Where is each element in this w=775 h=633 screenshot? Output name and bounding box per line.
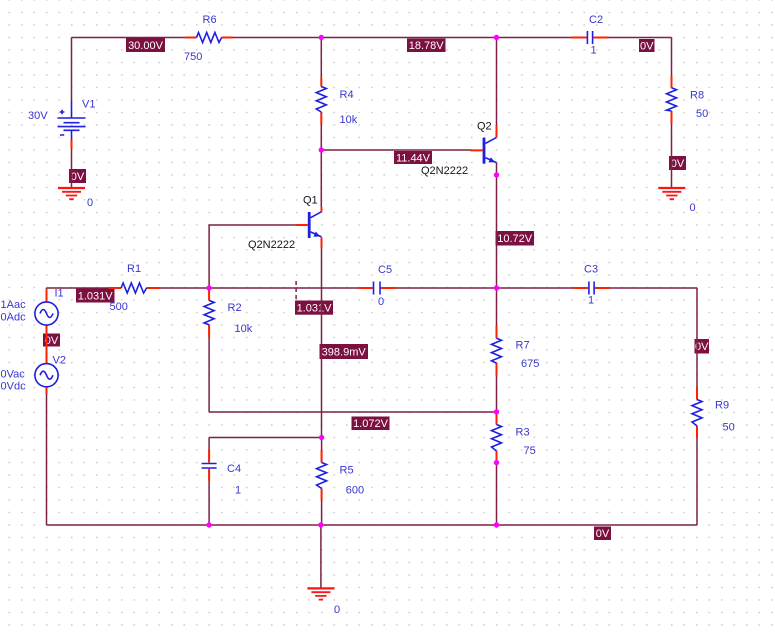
junction bottom at C4: [206, 522, 211, 527]
voltage label 11.44V: [394, 151, 432, 165]
junction R1 R2 base node: [206, 285, 211, 290]
svg-text:1.072V: 1.072V: [353, 418, 389, 430]
voltage label 398.9mV: [320, 344, 369, 359]
voltage label 1.031V mid: [295, 301, 333, 315]
ground 0 at R8: [658, 188, 685, 199]
svg-text:R6: R6: [203, 14, 217, 26]
capacitor C4: [202, 450, 217, 481]
svg-text:Q2: Q2: [477, 121, 492, 133]
capacitor C2: [571, 31, 608, 44]
wire R9 branch: [696, 288, 698, 525]
dashed leader 1.031V mid: [295, 281, 297, 301]
svg-text:R7: R7: [516, 339, 530, 351]
wire bottom ground branch: [320, 525, 322, 588]
resistor R1: [109, 283, 160, 293]
svg-text:R9: R9: [715, 400, 729, 412]
junction bottom at R3: [494, 522, 499, 527]
svg-text:0V: 0V: [71, 171, 85, 183]
svg-text:0Vac: 0Vac: [1, 369, 26, 381]
svg-text:Q2N2222: Q2N2222: [421, 165, 468, 177]
wire Q2 collector up: [496, 38, 498, 126]
wire C4 R5 net: [209, 438, 322, 526]
voltage label 0V at V1 ground: [69, 169, 86, 183]
svg-text:1: 1: [588, 295, 594, 307]
wire mid net y288: [47, 287, 698, 289]
resistor R7: [492, 326, 502, 376]
svg-text:10.72V: 10.72V: [497, 233, 533, 245]
wire R5 leads: [321, 438, 323, 526]
ground 0 at V1: [58, 188, 85, 199]
transistor Q2: [471, 126, 497, 164]
voltage label 10.72V: [496, 231, 535, 246]
voltage label 0V right of C2: [639, 39, 655, 52]
svg-text:0: 0: [378, 296, 384, 308]
svg-text:Q2N2222: Q2N2222: [248, 239, 295, 251]
resistor R8: [667, 76, 677, 124]
wire R2 branch: [208, 288, 210, 412]
svg-text:10k: 10k: [235, 323, 253, 335]
svg-text:0: 0: [690, 202, 696, 214]
svg-text:675: 675: [521, 358, 539, 370]
svg-text:0V: 0V: [671, 158, 685, 170]
wire top net: [72, 37, 672, 39]
svg-text:V1: V1: [82, 98, 95, 110]
svg-text:R4: R4: [340, 89, 354, 101]
svg-text:500: 500: [110, 301, 128, 313]
wire V1 branch: [71, 38, 73, 189]
transistor Q1: [297, 207, 322, 248]
resistor R4: [316, 78, 326, 125]
svg-text:R3: R3: [516, 427, 530, 439]
resistor R5: [317, 450, 327, 501]
capacitor C5: [359, 282, 396, 295]
voltage label 0V bottom: [594, 527, 611, 541]
wire Q2 emitter down: [496, 163, 498, 525]
svg-text:1.031V: 1.031V: [297, 303, 333, 315]
svg-text:C2: C2: [589, 14, 603, 26]
svg-text:Q1: Q1: [303, 195, 318, 207]
resistor R2: [204, 288, 214, 337]
wire Q2 base: [321, 149, 471, 151]
wire bottom net: [47, 524, 698, 526]
current source I1: [35, 290, 58, 340]
svg-text:11.44V: 11.44V: [396, 153, 431, 165]
svg-text:1.031V: 1.031V: [78, 290, 114, 302]
svg-text:10k: 10k: [340, 114, 358, 126]
svg-text:R8: R8: [690, 90, 704, 102]
voltage source V1 battery: [58, 101, 86, 149]
svg-text:30V: 30V: [28, 110, 48, 122]
svg-text:50: 50: [723, 422, 735, 434]
svg-text:R5: R5: [340, 465, 354, 477]
voltage label 30.00V: [126, 38, 165, 52]
svg-text:R2: R2: [228, 302, 242, 314]
svg-text:398.9mV: 398.9mV: [322, 347, 367, 359]
resistor R6: [185, 33, 233, 43]
junction mid net at Q2 emitter branch: [494, 285, 499, 290]
junction R4 Q2 base: [319, 147, 324, 152]
junction bottom at ground: [318, 522, 323, 527]
junction R3 bottom: [494, 460, 499, 465]
wire 1.072V net: [209, 411, 496, 413]
capacitor C3: [573, 282, 610, 295]
svg-text:I1: I1: [55, 288, 64, 300]
svg-text:0Vdc: 0Vdc: [1, 381, 27, 393]
junction top at R4: [319, 35, 324, 40]
wire Q1 emitter down: [321, 248, 323, 438]
wire R8 branch: [671, 38, 673, 189]
wire R4 branch: [320, 38, 322, 151]
junction R5 top: [319, 435, 324, 440]
svg-text:C4: C4: [227, 463, 241, 475]
svg-text:18.78V: 18.78V: [409, 40, 445, 52]
resistor R9: [692, 387, 702, 438]
svg-text:V2: V2: [53, 355, 66, 367]
svg-text:1Aac: 1Aac: [1, 299, 27, 311]
voltage label 0V between I1 V2: [43, 334, 60, 347]
junction Q2 emitter: [494, 172, 499, 177]
voltage label 0V at R9 branch: [695, 339, 710, 354]
voltage label 18.78V: [407, 39, 446, 53]
svg-text:30.00V: 30.00V: [128, 40, 164, 52]
voltage label 0V at R8 ground: [669, 156, 686, 170]
ground 0 bottom: [307, 588, 334, 599]
voltage label 1.031V left: [76, 289, 115, 303]
svg-text:R1: R1: [127, 263, 141, 275]
resistor R3: [492, 412, 502, 463]
svg-text:75: 75: [524, 445, 536, 457]
svg-text:0V: 0V: [640, 40, 654, 52]
svg-text:C5: C5: [378, 264, 392, 276]
wire Q1 collector: [320, 150, 322, 207]
voltage source V2: [35, 339, 58, 394]
svg-text:750: 750: [184, 51, 202, 63]
junction 1.072V net at R7 R3: [494, 409, 499, 414]
wire Q1 base: [209, 225, 296, 288]
svg-text:0V: 0V: [596, 528, 610, 540]
svg-text:50: 50: [696, 108, 708, 120]
svg-text:0: 0: [87, 197, 93, 209]
svg-text:0: 0: [334, 604, 340, 616]
junction top at Q2 collector: [494, 35, 499, 40]
svg-text:1: 1: [235, 485, 241, 497]
svg-text:0Adc: 0Adc: [1, 312, 27, 324]
svg-text:1: 1: [591, 45, 597, 57]
wire I1 V2 branch: [46, 288, 48, 525]
svg-text:C3: C3: [584, 264, 598, 276]
voltage label 1.072V: [352, 417, 390, 431]
svg-text:600: 600: [346, 485, 364, 497]
